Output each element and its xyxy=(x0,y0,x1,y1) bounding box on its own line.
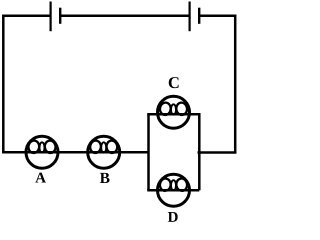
cell 1 short plate xyxy=(59,8,61,24)
wire exit to right side xyxy=(198,151,237,154)
cell 2 short plate xyxy=(198,8,200,24)
wire parallel top branch xyxy=(147,113,199,116)
wire parallel bottom branch xyxy=(147,189,199,192)
wire left side xyxy=(2,15,5,153)
wire top-right segment xyxy=(199,15,235,18)
cell 1 long plate xyxy=(49,2,51,32)
label C xyxy=(169,77,179,88)
lamp B xyxy=(88,136,120,168)
wire parallel-block right edge xyxy=(198,113,201,190)
cell 2 long plate xyxy=(189,2,191,32)
wire parallel-block left edge xyxy=(147,114,150,190)
lamp A xyxy=(26,136,58,168)
lamp D xyxy=(158,174,190,206)
label D xyxy=(168,212,178,222)
battery cell 2 xyxy=(190,2,200,32)
wire top-left segment xyxy=(3,15,50,18)
lamp C xyxy=(158,96,190,128)
wire right side xyxy=(234,15,237,153)
label B xyxy=(100,173,110,183)
wire top-middle segment xyxy=(60,15,189,18)
wire bottom through lamps A and B xyxy=(2,151,148,154)
battery cell 1 xyxy=(51,2,61,32)
label A xyxy=(35,173,46,183)
